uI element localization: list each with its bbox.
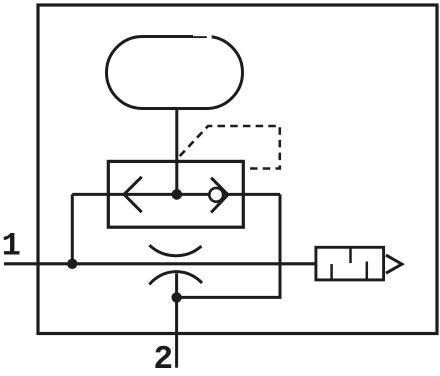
valve box [108, 161, 243, 227]
wire: valve output down and left [177, 194, 280, 297]
wire: valve centre line [72, 193, 280, 196]
silencer body [316, 247, 384, 280]
node: bottom junction [171, 292, 181, 302]
valve seat chevron (left) [124, 177, 142, 212]
throttle arc (top) [149, 245, 201, 256]
svg-text:1: 1 [2, 228, 21, 265]
svg-text:2: 2 [153, 341, 173, 376]
wire: main line port 1 [4, 262, 315, 265]
throttle arc (bottom) [149, 272, 202, 285]
node: valve centre junction [172, 189, 183, 200]
silencer outlet arrow [386, 255, 402, 273]
check valve ball [209, 188, 223, 202]
pilot line (dashed) [177, 126, 280, 169]
silencer tick 1 [330, 264, 333, 280]
wire: port 2 line [175, 273, 178, 367]
node: junction on main line [67, 259, 77, 269]
enclosure outline [38, 5, 437, 334]
pilot capsule [107, 37, 243, 109]
silencer tick 3 [366, 262, 369, 280]
wire: left riser [71, 194, 74, 263]
silencer tick 2 [349, 247, 352, 263]
wire: capsule stem [175, 108, 178, 194]
check valve seat chevron (right) [211, 178, 228, 213]
